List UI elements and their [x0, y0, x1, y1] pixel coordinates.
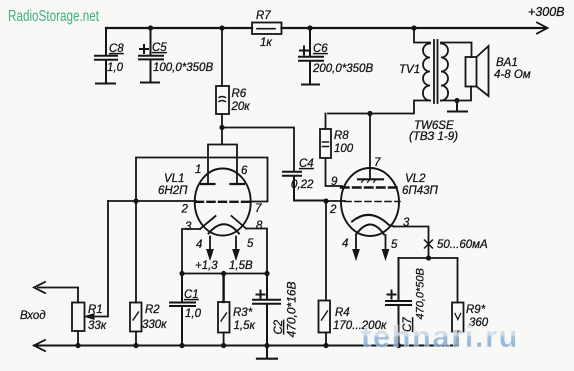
svg-text:tehnari.ru: tehnari.ru: [361, 319, 519, 354]
node speaker ground junction: [454, 98, 459, 103]
svg-text:R1: R1: [88, 304, 103, 316]
svg-text:VL1: VL1: [164, 173, 184, 185]
resistor R6: [221, 28, 223, 128]
grid dashed VL1: [196, 201, 250, 203]
svg-text:200,0*350В: 200,0*350В: [312, 63, 373, 75]
resistor R3: [222, 274, 224, 303]
svg-text:VL2: VL2: [405, 173, 426, 185]
capacitor C8: [95, 28, 117, 84]
node bottom rail junctions: [75, 343, 80, 348]
resistor R9: [457, 258, 459, 346]
svg-text:3: 3: [185, 221, 192, 233]
node plus C6: [299, 46, 309, 56]
node R6 anode junction: [219, 125, 224, 130]
tube VL1 envelope: [195, 169, 251, 236]
wire cathode network VL2: [399, 257, 458, 259]
svg-text:0,22: 0,22: [291, 179, 314, 191]
node input arrow top: [34, 282, 45, 293]
resistor R7: [252, 23, 282, 35]
svg-text:100: 100: [334, 143, 354, 155]
svg-text:4-8 Ом: 4-8 Ом: [494, 69, 531, 81]
wire VL1 anode leads: [208, 128, 237, 185]
wiper arrow R1: [90, 201, 108, 317]
svg-text:C5: C5: [152, 42, 167, 54]
node +300V arrow: [537, 23, 548, 34]
anode bars VL1: [201, 183, 244, 185]
wire VL1 cathode pin 8: [232, 216, 268, 274]
svg-text:33к: 33к: [88, 320, 107, 332]
svg-text:+1,3: +1,3: [195, 260, 218, 272]
wire top rail +300V: [106, 27, 546, 29]
node input arrow bottom: [34, 340, 45, 351]
capacitor C1: [170, 274, 195, 346]
wire VL2 cathode pin 3: [394, 227, 429, 259]
svg-text:R8: R8: [334, 130, 349, 142]
svg-text:R3*: R3*: [233, 307, 253, 319]
tube VL2 envelope: [341, 168, 399, 236]
control grid dashed VL2: [345, 201, 400, 203]
plus signs for electrolytics: [139, 44, 397, 300]
wire VL1 grid box: [136, 158, 268, 202]
svg-text:100,0*350В: 100,0*350В: [153, 62, 213, 74]
capacitor C4: [283, 172, 326, 201]
svg-text:1к: 1к: [260, 37, 272, 49]
wire R6 to C4 (VL1 anode node): [222, 128, 294, 172]
svg-text:1,0: 1,0: [107, 62, 124, 74]
node plus C7: [387, 290, 397, 300]
svg-text:470,0*50В: 470,0*50В: [415, 268, 427, 319]
ground below C2: [257, 358, 277, 360]
resistor R2: [135, 201, 137, 346]
svg-text:6Н2П: 6Н2П: [158, 185, 188, 197]
capacitor C6: [299, 28, 323, 85]
svg-text:R9*: R9*: [466, 304, 486, 316]
svg-text:50...60мА: 50...60мА: [437, 239, 488, 251]
svg-text:4: 4: [196, 239, 202, 251]
svg-text:2: 2: [329, 204, 337, 216]
wire VL1 cathode pin 3: [182, 216, 216, 274]
svg-text:8: 8: [256, 220, 263, 232]
anode bar VL2: [358, 178, 383, 180]
svg-text:20к: 20к: [231, 101, 251, 113]
svg-text:C4: C4: [299, 158, 314, 170]
capacitor C5: [139, 28, 163, 83]
svg-text:R7: R7: [256, 10, 271, 22]
svg-text:C8: C8: [109, 43, 124, 55]
node plus C2: [256, 290, 266, 300]
svg-text:1,5к: 1,5к: [234, 320, 256, 332]
svg-text:R6: R6: [232, 88, 247, 100]
cathode arc VL1: [209, 224, 240, 233]
svg-text:RadioStorage.net: RadioStorage.net: [8, 8, 99, 25]
cathode arc VL2: [352, 215, 394, 227]
wire input top to R1: [38, 287, 78, 289]
node grid/R2 junction: [133, 198, 138, 203]
svg-text:5: 5: [391, 239, 398, 251]
heater arrows VL1 pins 4,5: [210, 237, 236, 252]
heater arrows VL2 pins 4,5: [356, 235, 386, 252]
svg-text:1,5В: 1,5В: [229, 260, 253, 272]
screen grid dashed VL2: [341, 186, 397, 188]
svg-text:2: 2: [181, 204, 189, 216]
wire VL2 grid to R4: [325, 201, 327, 301]
svg-text:7: 7: [255, 203, 262, 215]
node cathode junctions: [179, 271, 184, 276]
resistor R4: [319, 301, 331, 333]
svg-text:1: 1: [195, 164, 201, 176]
svg-text:C1: C1: [184, 289, 199, 301]
node current X marker: [425, 240, 433, 248]
wire cathode rail VL1: [182, 273, 267, 275]
svg-text:BA1: BA1: [496, 57, 518, 69]
node VL2 grid junction: [323, 198, 328, 203]
svg-text:470,0*16В: 470,0*16В: [285, 281, 299, 337]
node top rail junctions: [148, 25, 153, 30]
svg-text:7: 7: [374, 157, 381, 169]
svg-text:Вход: Вход: [20, 310, 46, 322]
heater dome VL2: [356, 225, 384, 235]
svg-text:C2: C2: [273, 319, 285, 334]
pin numbers: [181, 157, 411, 251]
svg-text:R2: R2: [145, 304, 160, 316]
svg-text:4: 4: [342, 238, 348, 250]
svg-text:1,0: 1,0: [185, 308, 202, 320]
node plus C5: [139, 44, 149, 54]
svg-text:+300В: +300В: [528, 5, 565, 19]
wire bottom rail: [34, 345, 458, 347]
resistor R8: [326, 114, 343, 187]
transformer TV1 primary: [414, 28, 430, 43]
svg-text:6: 6: [241, 165, 248, 177]
svg-text:6П43П: 6П43П: [402, 185, 439, 197]
ground speaker: [448, 101, 467, 112]
node cathode node VL2: [426, 255, 431, 260]
transformer TV1 core: [434, 40, 438, 103]
capacitor C7: [386, 258, 411, 346]
transformer TV1 secondary: [441, 44, 448, 101]
speaker BA1: [466, 57, 477, 87]
capacitor C2: [253, 274, 280, 359]
wire anode node VL2: [367, 111, 372, 116]
svg-text:3: 3: [403, 217, 410, 229]
svg-text:C6: C6: [313, 43, 328, 55]
svg-text:9: 9: [331, 176, 338, 188]
svg-text:TV1: TV1: [399, 64, 420, 76]
wire grid to R1 wiper: [108, 200, 196, 202]
svg-text:R4: R4: [335, 307, 350, 319]
potentiometer R1: [72, 303, 85, 332]
svg-text:330к: 330к: [142, 319, 167, 331]
svg-text:(ТВЗ 1-9): (ТВЗ 1-9): [409, 131, 458, 143]
svg-text:5: 5: [247, 238, 254, 250]
